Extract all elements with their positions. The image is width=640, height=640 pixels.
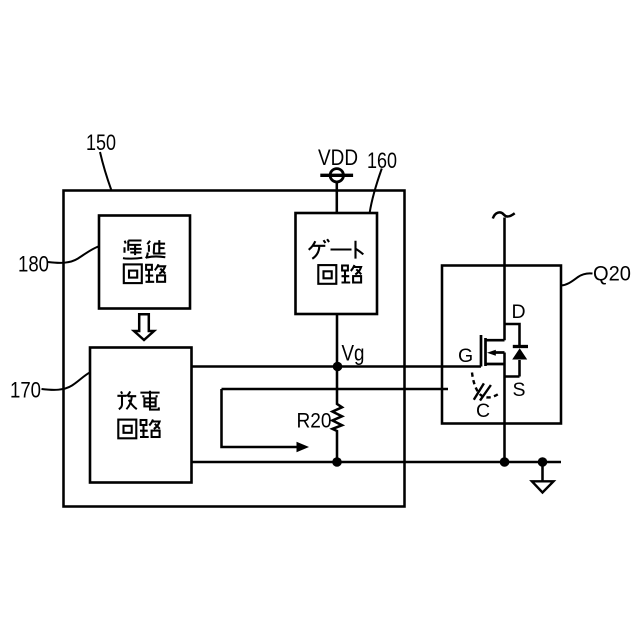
svg-text:R20: R20	[297, 410, 332, 433]
svg-text:S: S	[513, 379, 526, 401]
svg-text:150: 150	[86, 130, 116, 155]
svg-text:C: C	[476, 400, 490, 422]
svg-text:Vg: Vg	[342, 341, 365, 366]
svg-text:Q20: Q20	[593, 263, 631, 286]
svg-text:180: 180	[18, 252, 49, 277]
svg-text:160: 160	[367, 148, 397, 173]
svg-text:G: G	[458, 345, 473, 367]
svg-text:D: D	[512, 301, 526, 323]
svg-text:170: 170	[10, 378, 41, 403]
svg-text:VDD: VDD	[318, 145, 358, 170]
